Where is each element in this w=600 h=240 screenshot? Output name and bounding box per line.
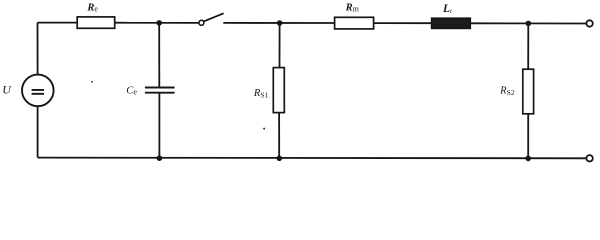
wire: RS2 branch lower lead (527, 114, 529, 159)
node: RS1 top junction (277, 20, 283, 26)
node: capacitor bottom junction (157, 155, 163, 161)
wire: top rail segment B (Re to switch) (115, 22, 199, 24)
terminal: top right (586, 20, 592, 26)
switch S (open) (199, 13, 224, 25)
voltage source U1 (DC source circle) (22, 75, 54, 107)
wire: capacitor branch lower lead (158, 94, 160, 158)
svg-text:Lt: Lt (442, 3, 452, 15)
wire: left vertical bottom (source to bottom rail) (37, 107, 39, 158)
wire: RS1 branch lower lead (278, 113, 280, 159)
node: capacitor top junction (156, 20, 162, 26)
wire: top rail segment D (Rm to inductor) (374, 22, 432, 24)
svg-text:RS2: RS2 (499, 85, 515, 97)
speck artifact 2 (263, 128, 265, 130)
resistor Rm (335, 17, 374, 29)
svg-text:U: U (2, 82, 12, 96)
wire: RS2 branch upper lead (527, 23, 529, 69)
wire: top rail segment A (corner to Re) (38, 22, 78, 24)
node: RS2 top junction (526, 21, 532, 27)
resistor Re (77, 17, 115, 28)
wire: top rail segment C (switch to Rm) (223, 22, 334, 24)
wire: top rail segment E (inductor to right terminal) (471, 22, 587, 24)
node: RS1 bottom junction (277, 156, 283, 162)
inductor L (solid bar) (431, 18, 470, 29)
wire: bottom rail (38, 157, 587, 160)
wire: RS1 branch upper lead (279, 23, 281, 68)
wire: capacitor branch upper lead (158, 23, 160, 87)
svg-text:RS1: RS1 (253, 88, 269, 100)
svg-text:Rm: Rm (345, 2, 360, 13)
terminal: bottom right (586, 155, 592, 161)
svg-text:Re: Re (86, 2, 98, 13)
wire: left vertical top (source to top rail) (37, 23, 39, 75)
resistor RS1 (273, 68, 284, 113)
node: RS2 bottom junction (525, 156, 531, 162)
svg-text:Ce: Ce (126, 85, 137, 96)
capacitor Ce (plates) (145, 88, 175, 93)
speck artifact 1 (91, 81, 93, 83)
resistor RS2 (523, 69, 534, 114)
